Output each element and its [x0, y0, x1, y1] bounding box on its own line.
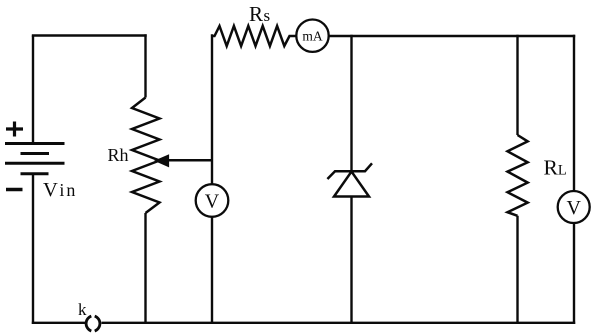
wire right vertical lower (V2 to bottom-right corner) — [573, 223, 575, 324]
wiper arrow of rheostat — [155, 155, 212, 167]
resistor RL — [508, 135, 528, 216]
voltmeter V1 — [196, 184, 229, 217]
label - (battery negative) — [6, 188, 23, 192]
voltmeter V2 — [558, 191, 590, 223]
svg-text:V: V — [205, 191, 220, 213]
zener diode — [327, 163, 372, 196]
svg-text:Vin: Vin — [43, 179, 77, 201]
wire zener branch top lead — [350, 35, 352, 171]
svg-text:mA: mA — [302, 29, 323, 44]
label + (battery positive) — [6, 122, 23, 137]
ammeter mA — [296, 20, 328, 52]
wire right vertical upper (top-right corner down to voltmeter V2) — [573, 35, 575, 191]
wire middle vertical upper (Rs corner down to voltmeter V1) — [211, 34, 213, 184]
wire rheostat bottom lead — [144, 213, 146, 324]
wire rheostat top lead — [144, 34, 146, 97]
rheostat Rh — [132, 98, 160, 214]
wire top-left horizontal — [32, 34, 147, 36]
wire RL top lead — [516, 35, 518, 135]
wire bottom horizontal right (switch to bottom-right corner) — [102, 322, 576, 324]
battery Vin — [5, 144, 65, 174]
svg-text:Rh: Rh — [108, 145, 129, 165]
wire middle vertical lower (V1 to bottom wire) — [211, 217, 213, 324]
wire left vertical bottom (battery - to bottom wire) — [32, 175, 34, 325]
wire top-right horizontal (mA to top-right corner) — [329, 35, 575, 37]
wire RL bottom lead — [516, 216, 518, 324]
resistor Rs — [212, 26, 297, 46]
wire left vertical top (battery + to top-left corner) — [32, 36, 34, 144]
switch k — [86, 316, 100, 331]
svg-text:Rs: Rs — [249, 2, 270, 26]
wire zener branch bottom lead — [350, 197, 352, 325]
svg-text:V: V — [566, 197, 581, 219]
svg-text:k: k — [78, 300, 87, 319]
wire bottom horizontal left (to switch) — [32, 322, 85, 324]
